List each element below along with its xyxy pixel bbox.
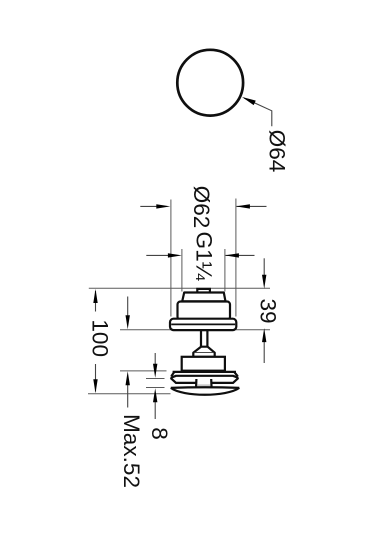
extension line G1¼ left [181,249,183,292]
knob cap [182,293,225,302]
funnel right side [210,379,213,387]
dimension 100 lower segment [95,364,97,392]
dimension Ø62 left arrowhead [156,204,170,208]
reference line dome bottom y394 [88,393,171,395]
dimension 39 top tail [263,258,265,277]
dimension Max.52 bottom tail [127,383,129,408]
rubber gasket disc fill [171,375,239,384]
dimension 100 up arrowhead [93,289,97,303]
extension line Ø62 left [170,200,172,317]
dimension 39 down arrowhead [262,275,266,289]
threaded stem [201,330,207,347]
svg-text:8: 8 [147,427,172,440]
leader line Ø64 [244,98,272,126]
dimension G1¼ right arrowhead [225,253,239,257]
dimension Ø62 left tail [140,205,158,207]
dimension 39 up arrowhead [262,328,266,342]
leader arrowhead [242,97,256,105]
top view circle Ø64 [177,50,243,116]
deck flange midline [171,323,235,325]
rubber gasket bottom edge left [171,378,197,383]
reference line wing top y371 [120,370,167,372]
upper body [178,302,231,320]
funnel inner faint line [197,384,210,386]
reference line top of body y288 [89,287,270,289]
dimension 100 down arrowhead [93,379,97,393]
clamp block [182,357,225,371]
dimension 39 bottom tail [263,340,265,363]
dimension 100 upper segment [95,291,97,312]
rubber gasket bottom edge right [211,378,238,383]
deck flange [170,319,236,330]
dimension 8 up arrowhead [153,388,157,402]
dome top edge [171,386,240,389]
dimension G1¼ left tail [146,254,170,256]
extension line Ø62 right [235,199,237,317]
rubber gasket top edge [171,376,239,378]
dimension 8 top tail [154,353,156,366]
dimension Max.52 down arrowhead [126,315,130,329]
stem nut [193,347,214,357]
dimension G1¼ left arrowhead [168,253,182,257]
dimension Ø62 right arrowhead [236,204,250,208]
reference dash gasket bottom [146,378,165,380]
dimension Max.52 top tail [127,297,129,319]
wing plate left rim [171,372,174,376]
funnel left side [195,379,197,387]
svg-text:100: 100 [87,319,112,357]
svg-text:G1¼: G1¼ [191,232,216,282]
reference dash dome top [146,387,165,389]
dimension Max.52 up arrowhead [126,371,130,385]
wing plate [173,371,236,373]
svg-text:Ø62: Ø62 [189,186,214,229]
reference line flange bottom y330 [120,329,270,331]
dimension 8 bottom tail [154,400,156,420]
svg-text:Ø64: Ø64 [264,130,289,173]
svg-text:39: 39 [256,298,281,323]
stem nut shoulder line [194,351,214,353]
dimension G1¼ right tail [226,254,255,256]
extension line G1¼ right [224,249,226,292]
dome bottom arc [171,388,240,395]
dimension Ø62 right tail [237,205,267,207]
dimension 8 down arrowhead [153,364,157,378]
svg-text:Max.52: Max.52 [119,414,144,488]
wing plate right rim [235,372,238,376]
knob nub [197,289,210,293]
